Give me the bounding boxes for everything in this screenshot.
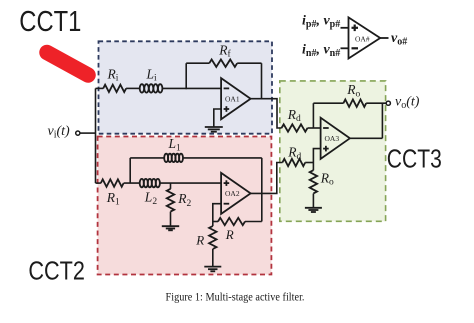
ground Ro2 [305, 208, 322, 212]
wire Rf right lead [237, 62, 261, 64]
wire OA2 output [251, 163, 283, 194]
inductor L1 [164, 154, 183, 162]
wire Rd1 to OA3 [308, 127, 321, 129]
wire Ro1 left lead [313, 102, 343, 104]
op-amp OA2 [221, 173, 251, 214]
ground R2 [162, 226, 179, 230]
box CCT1 region (blue dashed) [99, 41, 273, 133]
svg-text:CCT1: CCT1 [19, 6, 81, 38]
svg-text:OA2: OA2 [225, 189, 240, 198]
wire Ro2 bottom lead [312, 194, 314, 208]
svg-text:OA1: OA1 [225, 94, 240, 103]
OA1 plus mark [224, 106, 230, 112]
resistor R2 [167, 189, 174, 212]
wire R2 bottom lead [170, 212, 172, 227]
red marker annotation [47, 53, 88, 76]
resistor Rd2 [282, 159, 305, 166]
wire OA# top input stub [341, 27, 349, 29]
wire output vertical [381, 103, 383, 138]
svg-text:vi(t): vi(t) [48, 124, 71, 141]
wire R1 to L2 [124, 182, 140, 184]
resistor Ro2 [310, 170, 317, 193]
op-amp OA3 [321, 118, 350, 159]
wire red main lead [96, 182, 101, 184]
svg-text:vo(t): vo(t) [395, 95, 420, 112]
svg-text:OA#: OA# [355, 35, 370, 44]
resistor R to ground vertical [209, 226, 216, 249]
wire L2 to OA2 plus input [160, 182, 221, 184]
op-amp OA1 [221, 78, 251, 119]
svg-text:in#, vn#: in#, vn# [302, 43, 340, 60]
wire R feedback leads [212, 221, 218, 223]
resistor Rd1 [282, 124, 308, 131]
wire OA2 minus lead [213, 204, 221, 222]
wire Rf left lead [186, 62, 209, 64]
OA# plus mark [352, 25, 359, 32]
wire Ro1 feedback vertical [312, 103, 314, 128]
svg-text:Figure 1: Multi-stage active f: Figure 1: Multi-stage active filter. [166, 292, 305, 304]
inductor Li [140, 84, 163, 92]
OA3 minus mark [323, 127, 329, 129]
OA2 minus mark [224, 203, 230, 205]
svg-text:CCT3: CCT3 [387, 146, 442, 174]
OA# minus mark [352, 47, 359, 49]
wire Ro2 top lead [312, 163, 314, 171]
wire R2 top lead [170, 183, 172, 189]
wire Rf right vertical to output [261, 63, 263, 98]
wire R vertical bottom lead [212, 249, 214, 267]
box CCT3 region (green dashed) [280, 81, 386, 221]
wire vi lead [80, 132, 96, 134]
wire R feedback right lead [245, 221, 262, 223]
ground OA2 R [204, 267, 221, 272]
wire L1 right lead [183, 157, 262, 159]
svg-text:CCT2: CCT2 [28, 258, 85, 286]
wire OA3 plus lead [313, 149, 320, 163]
wire OA1 output [251, 99, 282, 128]
svg-text:R: R [195, 232, 204, 247]
wire blue main lead [96, 87, 104, 89]
OA1 minus mark [224, 87, 230, 89]
wire OA3 output [350, 137, 383, 139]
resistor Rf [209, 60, 237, 67]
resistor Ri [103, 85, 126, 92]
wire Ri-Li [126, 87, 140, 89]
resistor R feedback horizontal [218, 218, 245, 225]
box CCT2 region (red dashed) [98, 137, 272, 275]
wire Li to OA1 minus input [163, 87, 222, 89]
ground OA1 [205, 127, 223, 132]
svg-text:OA3: OA3 [325, 134, 340, 143]
wire Ro1 right lead [366, 102, 386, 104]
resistor Ro1 [343, 100, 366, 107]
resistor R1 [101, 179, 124, 186]
inductor L2 [140, 179, 160, 187]
wire L1 left lead [130, 157, 164, 159]
wire OA# output stub [380, 37, 388, 39]
wire input vertical [95, 88, 97, 183]
svg-text:R: R [225, 227, 234, 242]
op-amp OA# symbol [349, 17, 381, 58]
wire OA1 plus lead [214, 109, 221, 127]
terminal vo(t) [386, 101, 390, 105]
wire Rd2 right lead [305, 162, 313, 164]
node L1 branch vertical [129, 158, 131, 183]
svg-text:vo#: vo# [391, 31, 407, 48]
OA2 plus mark [224, 180, 230, 186]
wire feedback tap vertical [185, 63, 187, 89]
terminal vi(t) [76, 131, 80, 135]
wire R vertical top lead [212, 222, 214, 227]
svg-text:ip#, vp#: ip#, vp# [302, 14, 340, 31]
OA3 plus mark [323, 146, 329, 152]
wire L1 vertical to output node [261, 158, 263, 222]
wire OA# bottom input stub [341, 47, 349, 49]
